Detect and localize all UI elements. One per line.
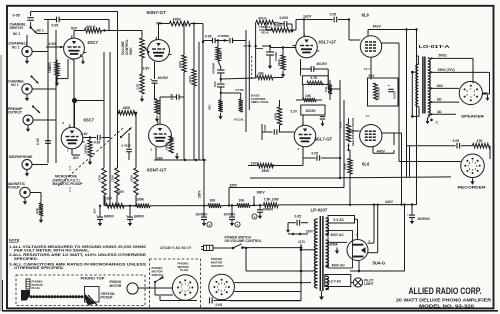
capacitor 470MMF attn vertical xyxy=(212,61,225,83)
svg-text:162V: 162V xyxy=(303,15,312,19)
ground volume xyxy=(140,96,144,103)
ground rail cap b xyxy=(128,220,132,227)
capacitor 0-005 treble xyxy=(275,16,292,27)
svg-text:8/450V: 8/450V xyxy=(104,214,115,218)
power transformer core xyxy=(320,216,323,291)
svg-text:250Ω (70V): 250Ω (70V) xyxy=(438,68,455,72)
svg-text:500Ω: 500Ω xyxy=(439,53,448,57)
svg-text:ATTN.: ATTN. xyxy=(244,44,253,48)
svg-text:SOCKET: SOCKET xyxy=(211,264,224,268)
svg-text:0.05: 0.05 xyxy=(453,139,460,143)
output transformer core xyxy=(423,57,425,114)
svg-text:MODEL NO. 93-320: MODEL NO. 93-320 xyxy=(419,303,474,309)
svg-text:442V: 442V xyxy=(385,200,394,204)
svg-text:8 2 7: 8 2 7 xyxy=(364,67,370,71)
cathode box V4 xyxy=(302,69,340,100)
wire grid V7 xyxy=(349,130,360,132)
wire plate V4 up xyxy=(303,20,305,37)
capacitor 0.05 channel input xyxy=(13,12,34,28)
svg-text:470MMF: 470MMF xyxy=(218,34,230,38)
output transformer primary winding xyxy=(416,56,419,107)
label power switch xyxy=(225,236,262,244)
resistor 47K recorder xyxy=(473,139,491,159)
svg-text:0-01: 0-01 xyxy=(213,81,217,87)
wire bus x104 xyxy=(103,52,105,168)
tap 16 ohm xyxy=(431,84,460,90)
svg-text:40/25V: 40/25V xyxy=(158,76,169,80)
wire cathode V2 xyxy=(143,62,155,79)
svg-text:-0.6V: -0.6V xyxy=(48,42,57,46)
channel switch xyxy=(10,22,44,36)
ground jack1 xyxy=(25,58,29,65)
svg-text:NC 1: NC 1 xyxy=(11,83,19,87)
svg-text:4.7K: 4.7K xyxy=(311,76,318,80)
svg-text:MICROPHONE: MICROPHONE xyxy=(9,155,33,159)
wire top feedback xyxy=(31,12,118,169)
svg-text:A: A xyxy=(254,215,256,219)
svg-text:6SL7-GT: 6SL7-GT xyxy=(315,137,333,142)
capacitor 0.05 line filter xyxy=(288,215,308,227)
capacitor 8/450V rail b xyxy=(126,206,145,220)
resistor 330K plate V4 xyxy=(266,23,296,32)
svg-text:10K: 10K xyxy=(239,198,246,202)
socket recorder xyxy=(458,154,486,189)
svg-text:RECORDER: RECORDER xyxy=(458,184,486,189)
svg-text:100K: 100K xyxy=(178,60,182,68)
tube 6L6 V5 xyxy=(360,13,381,58)
tap 8 ohm xyxy=(431,98,460,104)
svg-text:6L6: 6L6 xyxy=(362,161,370,166)
label 400V AC upper xyxy=(331,233,345,237)
svg-text:470K: 470K xyxy=(219,51,223,59)
svg-text:6SN7-GT: 6SN7-GT xyxy=(147,10,167,15)
svg-text:0.05: 0.05 xyxy=(312,152,319,156)
resistor 33K attn xyxy=(208,100,223,112)
svg-text:ON VOLUME CONTROL: ON VOLUME CONTROL xyxy=(225,239,262,243)
wire bus x409 xyxy=(409,146,411,177)
svg-text:500K: 500K xyxy=(129,47,133,55)
svg-text:0-05: 0-05 xyxy=(205,35,212,39)
crystal pickup drawing xyxy=(85,287,100,306)
wire row y160 xyxy=(154,159,206,161)
resistor 220K xyxy=(85,25,102,33)
output transformer primary tap wire xyxy=(411,71,419,118)
svg-text:A: A xyxy=(209,223,211,227)
svg-text:470K: 470K xyxy=(277,58,281,66)
svg-text:NC 2: NC 2 xyxy=(12,45,20,49)
wire treble vertical xyxy=(254,23,256,78)
resistor 120K xyxy=(98,168,107,206)
potentiometer 500K see instructions xyxy=(339,118,355,151)
resistor 10MEG V8 xyxy=(84,136,93,157)
wire screen V5 xyxy=(382,43,399,162)
ground 2.2K xyxy=(155,116,159,123)
capacitor 8/450V rail a xyxy=(93,206,115,220)
wire bus x194 xyxy=(193,22,195,160)
svg-text:3.8V: 3.8V xyxy=(143,66,151,70)
svg-text:ACCN.: ACCN. xyxy=(234,118,244,122)
svg-text:NC 1: NC 1 xyxy=(37,29,44,33)
svg-text:400V AC: 400V AC xyxy=(331,233,345,237)
potentiometer volume control 500K xyxy=(121,38,150,74)
wire grid -0.6V xyxy=(46,42,64,48)
svg-text:30/500V: 30/500V xyxy=(418,217,431,221)
resistor 350K xyxy=(258,158,304,173)
ground 33K attn xyxy=(218,113,222,120)
resistor 470K treble lower xyxy=(277,46,285,70)
tube 6SC7 V8 xyxy=(61,118,94,149)
capacitor 0.05 V6 out xyxy=(303,152,340,161)
resistor 33K treble xyxy=(256,71,283,79)
wire plate V1 xyxy=(74,31,85,39)
label 442V xyxy=(373,25,382,29)
svg-text:ATTN.: ATTN. xyxy=(235,88,244,92)
resistor 125K xyxy=(111,168,120,206)
resistor accn xyxy=(234,99,244,122)
svg-text:+: + xyxy=(388,84,390,88)
capacitor 0.05 interstage top xyxy=(44,17,109,28)
wire recorder left xyxy=(399,161,461,163)
svg-text:325V: 325V xyxy=(230,183,239,187)
resistor 2.2K V2 cathode xyxy=(155,99,162,114)
label phono top xyxy=(81,275,105,280)
dashed mic switch link xyxy=(58,128,123,186)
label 3.2V xyxy=(291,109,298,113)
dashed box phono top xyxy=(16,275,145,306)
svg-text:40/25V: 40/25V xyxy=(306,109,317,113)
node junction 100 xyxy=(74,101,76,128)
wire bus x416 442V xyxy=(416,30,418,205)
ground rail cap a xyxy=(98,220,102,227)
svg-text:180Ω: 180Ω xyxy=(274,112,278,120)
label 130MA xyxy=(328,243,340,254)
capacitor 40/25V V2 cathode xyxy=(150,76,169,99)
tube 6SL7-GT V6 xyxy=(294,122,332,146)
svg-text:33K: 33K xyxy=(106,196,113,200)
svg-text:0.05: 0.05 xyxy=(36,138,40,145)
socket phono motor plug xyxy=(172,275,198,301)
svg-text:40/75V: 40/75V xyxy=(393,91,397,99)
svg-text:+: + xyxy=(407,213,409,217)
label treble control xyxy=(259,25,274,35)
svg-text:PLUG: PLUG xyxy=(32,286,41,290)
svg-text:0.05: 0.05 xyxy=(330,13,337,17)
resistor 180K feedback xyxy=(117,106,137,115)
svg-text:LIGHT: LIGHT xyxy=(364,282,374,286)
resistor 135K xyxy=(130,112,139,206)
title Allied Radio Corp xyxy=(409,286,482,296)
label 50V xyxy=(364,57,375,79)
svg-text:0.05: 0.05 xyxy=(94,141,100,145)
capacitor 10/450V rail d xyxy=(224,204,241,227)
label 95V xyxy=(156,22,163,26)
svg-text:SPEAKER: SPEAKER xyxy=(461,114,484,119)
svg-text:0.0033: 0.0033 xyxy=(122,143,132,147)
wire recorder bottom xyxy=(340,176,451,179)
svg-text:6SC7: 6SC7 xyxy=(88,40,99,45)
svg-text:0.05: 0.05 xyxy=(295,215,302,219)
ground jack3 xyxy=(26,126,30,133)
label 145V xyxy=(117,190,125,194)
resistor 470K V7 xyxy=(343,150,352,205)
wire screen V7 xyxy=(382,133,394,145)
wire bus x401 xyxy=(394,133,402,205)
wire bus x203 xyxy=(202,24,204,161)
capacitor 0.05 to 6L6 grid xyxy=(330,13,351,23)
tube 6SN7-GT V3 xyxy=(147,121,173,172)
cathode box 6L6 250ohm 40/75V xyxy=(368,78,399,106)
svg-text:100K: 100K xyxy=(188,75,192,83)
svg-text:6SL7-GT: 6SL7-GT xyxy=(319,40,337,45)
svg-text:SWITCH: SWITCH xyxy=(152,273,164,277)
resistor 470K mid xyxy=(216,41,223,62)
jack preamp output xyxy=(8,105,40,125)
ground speaker xyxy=(482,93,489,101)
wire B+ rail xyxy=(99,203,417,207)
svg-text:16Ω: 16Ω xyxy=(437,84,444,88)
label 440V xyxy=(377,149,386,153)
svg-text:+: + xyxy=(126,214,128,218)
scan edge shading xyxy=(0,55,2,311)
label 162V xyxy=(303,15,312,19)
wire plate V2 xyxy=(159,24,170,40)
ground rail cap c xyxy=(202,220,206,227)
wire 260V drop xyxy=(198,159,206,206)
svg-text:PICKUP: PICKUP xyxy=(7,186,21,190)
ground power transformer xyxy=(319,291,324,300)
label 52V xyxy=(71,27,78,31)
wire row y178 xyxy=(250,158,341,179)
resistor 10K screen V6 xyxy=(296,94,322,102)
label -0.6V V8 xyxy=(80,132,88,136)
svg-text:33K: 33K xyxy=(258,71,265,75)
label phono motor socket xyxy=(211,257,224,268)
power switch symbol xyxy=(232,244,301,250)
svg-text:120K: 120K xyxy=(98,174,102,182)
label crystal pickup xyxy=(101,292,116,300)
note text block xyxy=(9,239,147,270)
svg-text:20 WATT DELUXE PHONO AMPLIFIER: 20 WATT DELUXE PHONO AMPLIFIER xyxy=(396,298,492,304)
resistor 47K magnetic input xyxy=(30,193,43,217)
svg-text:NOTE:: NOTE: xyxy=(9,239,20,243)
svg-text:6/450V: 6/450V xyxy=(263,207,274,211)
wire bus x344 xyxy=(343,100,345,188)
wire bus A x48 xyxy=(32,20,48,164)
wire grid V4 xyxy=(292,45,296,47)
svg-text:3.2V: 3.2V xyxy=(291,109,298,113)
ground jack5 xyxy=(23,198,27,205)
dashed box phono motor xyxy=(150,259,201,308)
svg-text:440V: 440V xyxy=(377,149,386,153)
svg-text:LP-0207: LP-0207 xyxy=(311,208,328,213)
transformer LO-01T-A label xyxy=(419,44,451,49)
label 380V xyxy=(253,191,266,207)
capacitor 0.05 mic bus xyxy=(32,138,51,164)
svg-text:130V: 130V xyxy=(306,230,314,234)
ground jack2 xyxy=(25,95,29,102)
svg-text:260V: 260V xyxy=(198,190,202,198)
wire bus x249 xyxy=(248,41,250,111)
svg-text:PICKUP: PICKUP xyxy=(101,295,114,299)
svg-text:40/25V: 40/25V xyxy=(317,62,328,66)
ground 10MEG xyxy=(55,80,59,87)
svg-text:470K: 470K xyxy=(343,162,347,170)
svg-text:125K: 125K xyxy=(111,174,115,182)
wire primary bottom xyxy=(245,247,315,273)
svg-text:6L6: 6L6 xyxy=(362,13,370,18)
resistor 10K rail 2 xyxy=(237,198,250,207)
capacitor 470MMF coupling mid xyxy=(217,34,246,43)
socket speaker xyxy=(459,81,484,118)
svg-text:NC 2: NC 2 xyxy=(13,32,20,36)
power transformer secondary 6.3V xyxy=(326,276,329,290)
wire plate rail 6SL7 xyxy=(296,18,333,30)
svg-text:82V: 82V xyxy=(73,156,80,160)
wire bus x340 xyxy=(339,80,341,159)
box 5V AC xyxy=(328,216,355,224)
jack channel NC1 xyxy=(8,75,39,94)
ground line filter xyxy=(286,227,290,233)
svg-text:SWITCH: SWITCH xyxy=(10,26,24,30)
svg-text:7.5K 10W: 7.5K 10W xyxy=(264,197,280,201)
label 117V xyxy=(298,240,306,244)
ground 1MEG V3 xyxy=(175,153,179,160)
capacitor 10/450V rail c xyxy=(196,206,213,227)
label 130V xyxy=(288,230,314,236)
ground jack4 xyxy=(25,170,29,177)
phono cable coil xyxy=(30,295,84,298)
tap 500 ohm xyxy=(431,53,474,83)
tap 4 ohm xyxy=(431,110,457,116)
svg-text:33K: 33K xyxy=(208,104,212,110)
ground rail cap d xyxy=(230,220,234,227)
svg-text:0-005: 0-005 xyxy=(280,16,289,20)
label 82V xyxy=(67,149,80,161)
wire cathode V3 xyxy=(151,147,164,160)
capacitor 6/450V rail e xyxy=(252,205,274,219)
svg-text:PER VOLT METER, WITH NO SIGNAL: PER VOLT METER, WITH NO SIGNAL. xyxy=(14,248,90,252)
svg-text:380V: 380V xyxy=(257,191,266,195)
svg-text:2MEG DUAL: 2MEG DUAL xyxy=(251,100,269,104)
svg-text:130MA: 130MA xyxy=(328,243,339,247)
ground 470K treble xyxy=(281,71,285,78)
resistor 10K rail 1 xyxy=(208,198,221,208)
wire bus x406 xyxy=(406,30,408,177)
label 117V AC xyxy=(160,246,192,250)
svg-text:3 7: 3 7 xyxy=(366,114,370,118)
svg-text:SEE INSTRUCTIONS: SEE INSTRUCTIONS xyxy=(351,118,355,146)
capacitor 40/25V V4 xyxy=(301,59,329,76)
capacitor 0.015 V6 grid xyxy=(262,124,294,140)
wire cathode V6 xyxy=(298,147,304,158)
svg-text:+: + xyxy=(150,78,152,82)
ground 47K xyxy=(39,217,43,224)
svg-text:MAGNETIC PICKUP: MAGNETIC PICKUP xyxy=(53,182,84,186)
tube 6L6 V7 xyxy=(360,114,382,166)
svg-text:1MEG: 1MEG xyxy=(165,141,169,150)
power transformer secondary 5V xyxy=(326,218,329,235)
svg-text:PLUG: PLUG xyxy=(180,268,189,272)
label 325V wire xyxy=(229,183,344,205)
tube 6SC7 V1 xyxy=(64,35,99,59)
wire 5U4 plate feeds xyxy=(328,205,378,253)
power plug xyxy=(201,245,232,250)
label phono motor switch xyxy=(152,266,164,277)
switch phono motor xyxy=(154,276,164,283)
cathode network V1 xyxy=(71,55,85,128)
resistor 150 ohm xyxy=(324,80,332,100)
power transformer secondary HV xyxy=(326,240,329,267)
power transformer primary winding xyxy=(314,219,317,288)
wire bus x246 xyxy=(245,30,247,132)
svg-text:10K: 10K xyxy=(305,94,312,98)
capacitor 0.05 V2 coupling xyxy=(160,94,184,124)
svg-text:10MEG: 10MEG xyxy=(84,143,88,154)
pilot light xyxy=(351,278,374,287)
svg-text:100K: 100K xyxy=(136,197,145,201)
svg-text:10/450V: 10/450V xyxy=(196,212,209,216)
ground 30/500V xyxy=(410,218,414,225)
svg-text:442V: 442V xyxy=(373,25,382,29)
capacitor 0.05 phono line xyxy=(210,298,302,308)
switch selector mid xyxy=(120,128,132,139)
svg-text:50V: 50V xyxy=(369,74,376,78)
label phono motor xyxy=(110,280,123,288)
wire plate V7 xyxy=(373,147,394,153)
wire recorder feed xyxy=(407,145,456,147)
wire bus x199 xyxy=(198,42,200,160)
svg-text:0.015: 0.015 xyxy=(263,124,267,132)
svg-text:433 K: 433 K xyxy=(261,31,270,35)
label 400V AC lower xyxy=(332,264,346,268)
wire grid V5 xyxy=(349,20,360,41)
svg-text:0.05: 0.05 xyxy=(216,303,223,307)
svg-text:OUTPUT: OUTPUT xyxy=(8,111,23,115)
subtitle 20 watt deluxe phono amplifier xyxy=(396,298,492,304)
svg-text:+: + xyxy=(96,214,98,218)
capacitor 0.0068 xyxy=(266,45,278,63)
ground rail cap e xyxy=(258,213,262,220)
svg-text:6SC7: 6SC7 xyxy=(84,118,95,123)
capacitor 0.05 V8 out xyxy=(83,135,110,145)
svg-text:10MEG: 10MEG xyxy=(48,62,52,73)
label microphone switch xyxy=(53,166,84,193)
svg-text:180K: 180K xyxy=(123,106,132,110)
svg-text:6SN7-GT: 6SN7-GT xyxy=(147,168,167,173)
label phono pickup plug xyxy=(32,279,44,290)
svg-text:10/450V: 10/450V xyxy=(224,212,237,216)
wires phono plug xyxy=(138,282,197,301)
svg-text:LO-01T-A: LO-01T-A xyxy=(419,44,451,49)
svg-text:MOTOR: MOTOR xyxy=(110,284,123,288)
resistor 7.5K 10W rail xyxy=(264,197,280,207)
jack magnetic pickup xyxy=(7,182,30,198)
resistor 180 ohm bass xyxy=(274,100,282,132)
wire 5U4 filament xyxy=(350,205,405,273)
ground 10MEG V8 xyxy=(88,159,92,166)
wire transformer bottom return xyxy=(230,300,301,302)
svg-text:117V: 117V xyxy=(298,240,306,244)
tube 5U4-G rectifier xyxy=(347,233,386,265)
svg-text:330K: 330K xyxy=(275,24,284,28)
svg-text:400V AC: 400V AC xyxy=(332,264,346,268)
resistor 10MEG V1 grid xyxy=(48,59,68,80)
subtitle model no xyxy=(419,303,474,309)
svg-text:250Ω10W: 250Ω10W xyxy=(377,87,381,99)
label bass control xyxy=(251,93,269,104)
wire bus x184 xyxy=(183,24,185,161)
box 40/25V V6 xyxy=(301,105,325,126)
